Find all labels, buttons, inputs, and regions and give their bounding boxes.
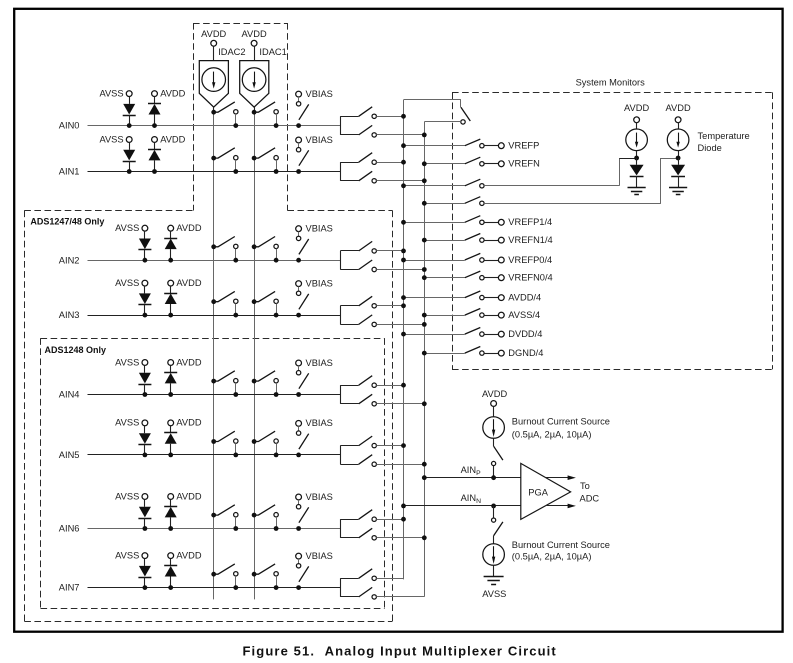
- IDAC1 output stem: [254, 107, 256, 112]
- VBIAS terminal circle (AIN3): [296, 281, 302, 287]
- svg-text:AVSS: AVSS: [115, 491, 139, 501]
- wire to VREFN1/4 terminal: [484, 240, 498, 242]
- wire PGA output N: [546, 505, 570, 507]
- junction dot (temperature diode branch): [676, 156, 681, 161]
- AIN7 mux switch blade to bus P: [359, 569, 373, 579]
- DGND/4 switch blade: [465, 347, 481, 354]
- VBIAS terminal circle (AIN5): [296, 421, 302, 427]
- burnout current source bottom: [483, 544, 505, 566]
- DVDD/4 label: [508, 329, 542, 339]
- VBIAS switch contact (AIN0): [296, 102, 300, 106]
- temperature diode feed switch blade: [465, 197, 481, 204]
- input label AIN1: [59, 167, 80, 177]
- svg-text:VBIAS: VBIAS: [306, 551, 333, 561]
- clamp diode to AVSS (AIN1): [123, 142, 136, 171]
- svg-text:DGND/4: DGND/4: [508, 348, 543, 358]
- figure caption: [243, 643, 557, 658]
- current source IDAC2 (body+circle+arrow): [199, 61, 228, 108]
- mux bus N (right vertical bus): [424, 122, 426, 597]
- VREFP1/4 switch blade: [465, 216, 481, 223]
- AIN4 switch blade (IDAC2 rail): [214, 371, 235, 381]
- AIN3 switch contact (IDAC2 rail): [234, 299, 238, 315]
- AIN1 switch blade (IDAC2 rail): [214, 148, 235, 158]
- AIN4 mux switch contact (bus P): [372, 383, 376, 387]
- AIN6 switch blade (IDAC2 rail): [214, 505, 235, 515]
- svg-text:AVDD: AVDD: [482, 389, 507, 399]
- svg-text:AIN0: AIN0: [59, 121, 80, 131]
- AIN5 switch contact (IDAC2 rail): [234, 439, 238, 455]
- AIN4 switch blade (IDAC1 rail): [254, 371, 275, 381]
- AIN5 fork bracket: [340, 446, 358, 465]
- AVDD terminal circle (AIN5): [168, 420, 174, 426]
- AIN0 switch contact (IDAC1 rail): [274, 110, 278, 126]
- junction dot (bus / DVDD/4): [401, 332, 406, 337]
- VREFN0/4 terminal circle: [498, 275, 504, 281]
- arrow PGA output P to ADC: [568, 475, 576, 480]
- VBIAS switch blade (AIN1): [299, 150, 309, 165]
- AIN5 mux switch contact (bus P): [372, 443, 376, 447]
- wire to VREFP terminal: [484, 145, 498, 147]
- wire to VREFP0/4 terminal: [484, 260, 498, 262]
- ADS1248 Only dashed box: [41, 338, 385, 608]
- burnout bottom label: [512, 540, 610, 561]
- svg-text:AVDD: AVDD: [624, 103, 649, 113]
- junction dot (bus N / AIN1): [422, 178, 427, 183]
- junction dot (bus / AVDD/4): [401, 295, 406, 300]
- AVDD label (temperature diode branch): [666, 103, 691, 113]
- clamp diode to AVDD (AIN4): [164, 365, 177, 394]
- clamp diode to AVDD (AIN5): [164, 426, 177, 455]
- wire AIN0 to bus P: [376, 116, 403, 118]
- AIN6 switch contact (IDAC1 rail): [274, 513, 278, 529]
- svg-text:Diode: Diode: [698, 143, 722, 153]
- svg-text:AIN6: AIN6: [59, 524, 80, 534]
- clamp diode to AVSS (AIN7): [138, 559, 151, 588]
- VREFP switch contact: [480, 144, 484, 148]
- svg-text:VBIAS: VBIAS: [306, 89, 333, 99]
- burnout top label: [512, 416, 610, 439]
- AVSS label (AIN0): [99, 88, 123, 98]
- AIN6 mux switch contact (bus N): [372, 536, 376, 540]
- wire AIN7 to bus P: [376, 578, 403, 580]
- wire to AVDD/4 terminal: [484, 297, 498, 299]
- AIN0 switch pole dot on IDAC1 rail: [252, 110, 257, 115]
- junction dot (AIN5/IDAC2 switch): [233, 453, 238, 458]
- AVSS label (AIN2): [115, 223, 139, 233]
- temperature diode feed switch contact: [480, 201, 484, 205]
- stem wire 2 (monitor diode branch): [636, 151, 638, 158]
- junction dot (AIN7/AVDD diode): [168, 585, 173, 590]
- ADS1247/48 Only dashed box: [24, 211, 392, 622]
- svg-text:AINN: AINN: [461, 493, 482, 505]
- svg-text:AVDD: AVDD: [176, 223, 201, 233]
- AIN7 switch pole dot on IDAC2 rail: [211, 572, 216, 577]
- AIN2 switch contact (IDAC1 rail): [274, 244, 278, 260]
- AIN0 switch pole dot on IDAC2 rail: [211, 110, 216, 115]
- VREFN switch contact: [480, 162, 484, 166]
- clamp diode to AVDD (AIN3): [164, 286, 177, 315]
- junction dot (AIN1/IDAC2 switch): [233, 169, 238, 174]
- wire bus to VREFN0/4 switch: [424, 277, 465, 279]
- junction dot (AIN1/AVSS diode): [127, 169, 132, 174]
- VREFN terminal circle: [498, 161, 504, 167]
- junction dot (AIN0/VBIAS): [296, 123, 301, 128]
- wire AIN5 to bus P: [376, 445, 403, 447]
- AIN1 mux switch contact (bus P): [372, 160, 376, 164]
- junction dot (AIN3/IDAC1 switch): [274, 313, 279, 318]
- stem mid (burnout bottom): [493, 536, 495, 544]
- monitor input switch blade: [461, 107, 470, 121]
- bus P top wire into monitor switch: [404, 100, 461, 108]
- stem (burnout top): [493, 406, 495, 416]
- junction dot (AIN7/IDAC2 switch): [233, 585, 238, 590]
- AVSS label (AIN7): [115, 550, 139, 560]
- junction dot (monitor diode branch): [634, 156, 639, 161]
- AVSS label (AIN1): [99, 134, 123, 144]
- AIN2 switch contact (IDAC2 rail): [234, 244, 238, 260]
- VBIAS switch blade (AIN7): [299, 566, 309, 581]
- stem wire (monitor diode branch): [636, 123, 638, 129]
- AIN4 switch contact (IDAC2 rail): [234, 379, 238, 395]
- AIN1 fork bracket: [340, 162, 358, 181]
- svg-text:AIN4: AIN4: [59, 390, 80, 400]
- AVDD label (AIN6): [176, 491, 201, 501]
- svg-text:VBIAS: VBIAS: [306, 224, 333, 234]
- stem 2 (burnout bottom): [493, 565, 495, 576]
- AVSS terminal circle (AIN6): [142, 494, 148, 500]
- junction dot (AIN6/IDAC2 switch): [233, 526, 238, 531]
- IDAC1 output rail: [254, 107, 256, 599]
- AVDD/4 terminal circle: [498, 295, 504, 301]
- AIN7 switch contact (IDAC2 rail): [234, 572, 238, 588]
- AIN1 switch pole dot on IDAC2 rail: [211, 156, 216, 161]
- wire monitor switch to monitor current source: [484, 158, 636, 186]
- VBIAS circles stem (AIN7): [298, 559, 300, 564]
- input line AIN5: [88, 454, 341, 456]
- AVDD/4 switch blade: [465, 291, 481, 298]
- AIN0 mux switch contact (bus P): [372, 114, 376, 118]
- svg-text:AVSS: AVSS: [99, 134, 123, 144]
- AIN3 mux switch blade to bus P: [359, 296, 373, 306]
- AVDD terminal circle (AIN6): [168, 494, 174, 500]
- VBIAS switch blade (AIN5): [299, 434, 309, 449]
- svg-text:AVSS/4: AVSS/4: [508, 310, 540, 320]
- VREFN switch blade: [465, 157, 481, 164]
- svg-text:VBIAS: VBIAS: [306, 418, 333, 428]
- VREFP1/4 terminal circle: [498, 219, 504, 225]
- AIN3 mux switch contact (bus N): [372, 322, 376, 326]
- wire AIN2 to bus P: [376, 250, 403, 252]
- AIN7 mux switch contact (bus N): [372, 595, 376, 599]
- AVDD terminal circle (burnout top): [491, 401, 497, 407]
- wire bus to AVDD/4 switch: [404, 297, 465, 299]
- junction dot (AIN3/IDAC2 switch): [233, 313, 238, 318]
- AVDD label (AIN2): [176, 223, 201, 233]
- wire to VREFN0/4 terminal: [484, 277, 498, 279]
- AIN0 switch blade (IDAC2 rail): [214, 102, 235, 112]
- node AINP label: [461, 465, 482, 477]
- clamp diode to AVSS (AIN4): [138, 365, 151, 394]
- VBIAS terminal circle (AIN0): [296, 91, 302, 97]
- junction dot (bus / AVSS/4): [422, 313, 427, 318]
- svg-text:VBIAS: VBIAS: [306, 492, 333, 502]
- wire bus to VREFN1/4 switch: [424, 240, 465, 242]
- VREFN label: [508, 159, 540, 169]
- VBIAS terminal circle (AIN7): [296, 553, 302, 559]
- junction dot (AIN3/AVSS diode): [143, 313, 148, 318]
- wire AIN1 to bus N: [376, 180, 424, 182]
- diode (temperature diode branch): [671, 158, 685, 187]
- AIN2 mux switch blade to bus P: [359, 241, 373, 251]
- VBIAS circles stem (AIN0): [298, 97, 300, 102]
- AIN1 switch blade (IDAC1 rail): [254, 148, 275, 158]
- monitor source feed switch contact: [480, 184, 484, 188]
- AIN2 switch pole dot on IDAC1 rail: [252, 244, 257, 249]
- AVDD label (monitor diode branch): [624, 103, 649, 113]
- junction dot (bus / VREFP): [401, 143, 406, 148]
- VREFP0/4 switch contact: [480, 258, 484, 262]
- VBIAS label (AIN2): [306, 224, 333, 234]
- VBIAS switch contact (AIN4): [296, 371, 300, 375]
- AIN1 mux switch blade to bus N: [359, 171, 373, 181]
- VBIAS label (AIN6): [306, 492, 333, 502]
- junction dot (AINP / burnout): [491, 475, 496, 480]
- clamp diode to AVDD (AIN1): [148, 142, 161, 171]
- VREFP1/4 label: [508, 217, 552, 227]
- VBIAS label (AIN5): [306, 418, 333, 428]
- junction dot (bus P / AIN4): [401, 383, 406, 388]
- svg-text:AVDD: AVDD: [201, 29, 226, 39]
- VBIAS terminal circle (AIN4): [296, 360, 302, 366]
- input label AIN0: [59, 121, 80, 131]
- junction dot (bus N / AIN5): [422, 462, 427, 467]
- wire to VREFN terminal: [484, 163, 498, 165]
- VREFP0/4 label: [508, 255, 552, 265]
- clamp diode to AVSS (AIN6): [138, 499, 151, 528]
- junction dot (AIN0/IDAC1 switch): [274, 123, 279, 128]
- AVDD terminal circle IDAC1: [251, 40, 257, 46]
- AIN2 switch blade (IDAC2 rail): [214, 237, 235, 247]
- svg-text:AIN5: AIN5: [59, 450, 80, 460]
- wire bus to DGND/4 switch: [424, 353, 465, 355]
- svg-text:IDAC2: IDAC2: [218, 47, 245, 57]
- VREFP1/4 switch contact: [480, 220, 484, 224]
- svg-text:VREFP0/4: VREFP0/4: [508, 255, 552, 265]
- junction dot (AIN2/IDAC2 switch): [233, 258, 238, 263]
- AIN2 mux switch contact (bus N): [372, 267, 376, 271]
- IDAC2 output rail: [213, 107, 215, 599]
- AIN4 mux switch contact (bus N): [372, 402, 376, 406]
- junction dot (bus N / AIN4): [422, 401, 427, 406]
- AIN2 switch pole dot on IDAC2 rail: [211, 244, 216, 249]
- junction dot (bus / VREFN1/4): [422, 238, 427, 243]
- AIN5 switch pole dot on IDAC2 rail: [211, 439, 216, 444]
- input label AIN2: [59, 255, 80, 265]
- AVDD/4 switch contact: [480, 295, 484, 299]
- wire to AVSS/4 terminal: [484, 315, 498, 317]
- svg-text:IDAC1: IDAC1: [259, 47, 286, 57]
- clamp diode to AVDD (AIN7): [164, 559, 177, 588]
- AIN5 mux switch contact (bus N): [372, 462, 376, 466]
- AVDD terminal circle (AIN1): [152, 137, 158, 143]
- svg-text:AVDD: AVDD: [176, 418, 201, 428]
- AIN6 mux switch contact (bus P): [372, 517, 376, 521]
- AVSS/4 switch contact: [480, 313, 484, 317]
- DGND/4 terminal circle: [498, 350, 504, 356]
- junction dot (bus P / AIN2): [401, 249, 406, 254]
- junction dot (bus N / AIN0): [422, 133, 427, 138]
- AIN4 mux switch blade to bus P: [359, 376, 373, 386]
- VBIAS label (AIN4): [306, 358, 333, 368]
- VREFN0/4 switch blade: [465, 271, 481, 278]
- svg-text:(0.5µA, 2µA, 10µA): (0.5µA, 2µA, 10µA): [512, 430, 592, 440]
- VBIAS switch contact (AIN5): [296, 431, 300, 435]
- VREFN1/4 switch contact: [480, 238, 484, 242]
- wire bus to VREFP1/4 switch: [404, 222, 465, 224]
- VBIAS switch contact (AIN3): [296, 291, 300, 295]
- AVDD label above IDAC2: [201, 29, 226, 39]
- AVDD terminal circle (monitor diode branch): [634, 117, 640, 123]
- VBIAS circles stem (AIN3): [298, 287, 300, 292]
- AIN2 switch blade (IDAC1 rail): [254, 237, 275, 247]
- svg-text:AVSS: AVSS: [115, 550, 139, 560]
- AIN3 mux switch blade to bus N: [359, 315, 373, 325]
- AIN3 fork bracket: [340, 306, 358, 325]
- input line AIN1: [88, 171, 341, 173]
- AVSS terminal circle (AIN7): [142, 553, 148, 559]
- VREFN0/4 switch contact: [480, 276, 484, 280]
- wire monitor switch to temperature diode: [484, 158, 678, 204]
- junction dot (AIN2/VBIAS): [296, 258, 301, 263]
- svg-text:AVSS: AVSS: [115, 357, 139, 367]
- clamp diode to AVDD (AIN2): [164, 231, 177, 260]
- svg-text:System Monitors: System Monitors: [576, 77, 646, 87]
- svg-text:AIN3: AIN3: [59, 310, 80, 320]
- clamp diode to AVSS (AIN2): [138, 231, 151, 260]
- AIN4 switch pole dot on IDAC2 rail: [211, 379, 216, 384]
- VBIAS label (AIN0): [306, 89, 333, 99]
- AVSS/4 label: [508, 310, 540, 320]
- op-amp PGA: [521, 463, 571, 519]
- AIN6 switch blade (IDAC1 rail): [254, 505, 275, 515]
- svg-text:VBIAS: VBIAS: [306, 278, 333, 288]
- junction dot (bus P / AINN): [401, 504, 406, 509]
- svg-text:AVDD: AVDD: [176, 491, 201, 501]
- wire AINN line: [404, 505, 521, 507]
- DGND/4 label: [508, 348, 543, 358]
- wire bus to monitor source feed switch: [404, 185, 465, 187]
- svg-text:AIN1: AIN1: [59, 167, 80, 177]
- wire to VREFP1/4 terminal: [484, 222, 498, 224]
- junction dot (bus N / AIN3): [422, 322, 427, 327]
- input line AIN2: [88, 260, 341, 262]
- junction dot (AIN4/IDAC2 switch): [233, 392, 238, 397]
- AIN1 mux switch contact (bus N): [372, 179, 376, 183]
- AIN6 switch contact (IDAC2 rail): [234, 513, 238, 529]
- AIN1 switch pole dot on IDAC1 rail: [252, 156, 257, 161]
- junction dot (AIN6/VBIAS): [296, 526, 301, 531]
- AIN3 switch blade (IDAC1 rail): [254, 291, 275, 301]
- VREFP0/4 switch blade: [465, 253, 481, 260]
- AIN2 fork bracket: [340, 251, 358, 270]
- AVDD label above IDAC1: [242, 29, 267, 39]
- svg-text:Figure 51. Analog Input Multi: Figure 51. Analog Input Multiplexer Circ…: [243, 643, 557, 658]
- junction dot (AIN6/AVSS diode): [143, 526, 148, 531]
- IDAC2 label: [218, 47, 245, 57]
- wire AIN6 to bus P: [376, 519, 403, 521]
- AVDD terminal circle (AIN0): [152, 91, 158, 97]
- junction dot (bus / VREFN0/4): [422, 275, 427, 280]
- junction dot (bus N / AIN6): [422, 535, 427, 540]
- svg-text:AVSS: AVSS: [115, 223, 139, 233]
- input label AIN5: [59, 450, 80, 460]
- input line AIN3: [88, 315, 341, 317]
- svg-text:VBIAS: VBIAS: [306, 135, 333, 145]
- IDAC2 supply stem wire: [213, 46, 215, 60]
- junction dot (AIN4/AVDD diode): [168, 392, 173, 397]
- wire AIN3 to bus P: [376, 305, 403, 307]
- junction dot (AIN5/VBIAS): [296, 453, 301, 458]
- arrow PGA output N to ADC: [568, 504, 576, 509]
- To ADC label: [580, 481, 600, 503]
- junction dot (AIN5/IDAC1 switch): [274, 453, 279, 458]
- mux bus P (left vertical bus): [403, 100, 405, 580]
- svg-text:AVDD/4: AVDD/4: [508, 293, 541, 303]
- junction dot (bus / monitor source feed): [401, 183, 406, 188]
- clamp diode to AVDD (AIN6): [164, 499, 177, 528]
- junction dot (AIN0/AVDD diode): [152, 123, 157, 128]
- AVSS terminal circle (AIN5): [142, 420, 148, 426]
- VREFP terminal circle: [498, 143, 504, 149]
- AIN5 mux switch blade to bus P: [359, 436, 373, 446]
- svg-text:VREFN1/4: VREFN1/4: [508, 235, 552, 245]
- svg-text:Burnout Current Source: Burnout Current Source: [512, 416, 610, 426]
- AIN6 mux switch blade to bus P: [359, 510, 373, 520]
- junction dot (bus / VREFP1/4): [401, 220, 406, 225]
- VBIAS switch contact (AIN2): [296, 236, 300, 240]
- svg-text:AINP: AINP: [461, 465, 482, 477]
- svg-text:AVDD: AVDD: [176, 278, 201, 288]
- junction dot (bus / temperature diode feed): [422, 201, 427, 206]
- svg-text:AVSS: AVSS: [115, 418, 139, 428]
- junction dot (AIN0/AVSS diode): [127, 123, 132, 128]
- AVDD terminal circle (AIN4): [168, 360, 174, 366]
- svg-text:VBIAS: VBIAS: [306, 358, 333, 368]
- junction dot (bus P / AIN5): [401, 443, 406, 448]
- svg-text:Temperature: Temperature: [698, 131, 750, 141]
- stem wire (temperature diode branch): [678, 123, 680, 129]
- svg-text:ADS1247/48 Only: ADS1247/48 Only: [30, 217, 104, 227]
- junction dot (AIN1/VBIAS): [296, 169, 301, 174]
- wire bus to DVDD/4 switch: [404, 334, 465, 336]
- junction dot (bus P / AIN3): [401, 303, 406, 308]
- svg-text:AVDD: AVDD: [176, 357, 201, 367]
- input line AIN4: [88, 394, 341, 396]
- AIN0 mux switch blade to bus N: [359, 125, 373, 134]
- DVDD/4 terminal circle: [498, 331, 504, 337]
- AIN5 switch blade (IDAC2 rail): [214, 431, 235, 441]
- AIN4 switch contact (IDAC1 rail): [274, 379, 278, 395]
- wire AIN1 to bus P: [376, 162, 403, 164]
- node AINN label: [461, 493, 482, 505]
- stem 3 (burnout top): [493, 466, 495, 478]
- VBIAS switch blade (AIN2): [299, 239, 309, 254]
- AVSS/4 terminal circle: [498, 312, 504, 318]
- VREFN1/4 switch blade: [465, 234, 481, 241]
- AVSS terminal circle (AIN2): [142, 225, 148, 231]
- junction dot (AIN2/AVDD diode): [168, 258, 173, 263]
- wire bus to temperature diode feed switch: [424, 203, 465, 205]
